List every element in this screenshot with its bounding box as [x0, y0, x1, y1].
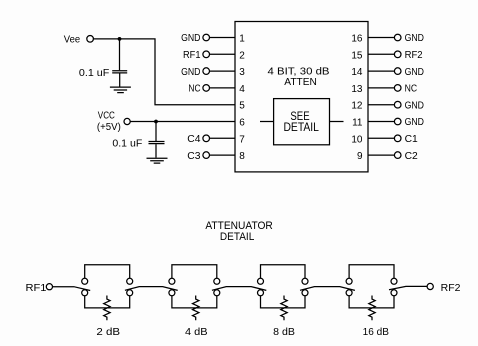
node pin10 C1 terminal — [394, 135, 401, 142]
svg-text:(+5V): (+5V) — [97, 122, 121, 133]
wire pin7 — [210, 137, 236, 139]
svg-text:GND: GND — [405, 100, 424, 111]
svg-text:Vee: Vee — [64, 35, 81, 46]
resistor 16 dB — [369, 296, 375, 321]
wire pin3 — [210, 70, 236, 72]
node cell1 upper-left contact — [82, 278, 88, 284]
svg-text:16 dB: 16 dB — [363, 327, 390, 338]
attenuator cell 4 bottom rail — [349, 296, 394, 308]
ground (bottom capacitor) — [147, 158, 168, 163]
svg-text:NC: NC — [405, 84, 418, 95]
wire pin12 — [368, 104, 394, 106]
node cell4 upper-left contact — [346, 278, 352, 284]
svg-text:9: 9 — [357, 151, 363, 162]
svg-text:C3: C3 — [187, 151, 201, 162]
capacitor 0.1 uF top — [112, 71, 127, 73]
see-detail inner box — [274, 99, 330, 145]
ground (top capacitor) — [110, 87, 131, 93]
wire see-detail right stub — [330, 121, 344, 123]
node pin11 GND terminal — [394, 118, 401, 125]
wire pin9 — [368, 154, 394, 156]
node cell1 upper-right contact — [127, 278, 133, 284]
svg-text:C4: C4 — [187, 134, 201, 145]
svg-text:5: 5 — [239, 101, 245, 112]
svg-text:GND: GND — [405, 33, 424, 44]
svg-text:4 dB: 4 dB — [185, 327, 208, 338]
node cell4 lower-right contact — [391, 290, 397, 296]
svg-text:15: 15 — [351, 50, 363, 61]
node cell3 lower-right contact — [302, 290, 308, 296]
svg-text:DETAIL: DETAIL — [220, 231, 254, 243]
svg-text:VCC: VCC — [98, 110, 115, 121]
node Vee terminal — [87, 36, 94, 43]
junction Vee/C-top — [118, 37, 122, 41]
wire junction to C-top — [119, 39, 121, 70]
attenuator cell 3 top rail — [261, 265, 306, 279]
svg-text:ATTEN: ATTEN — [284, 77, 317, 88]
node cell3 lower-left contact — [258, 290, 264, 296]
svg-text:GND: GND — [181, 33, 200, 44]
svg-text:1: 1 — [239, 34, 245, 45]
node RF2 terminal (detail) — [427, 283, 433, 289]
attenuator cell 3 bottom rail — [261, 296, 306, 308]
svg-text:GND: GND — [405, 117, 424, 128]
svg-text:2 dB: 2 dB — [96, 327, 120, 338]
svg-text:C2: C2 — [405, 151, 419, 162]
svg-text:11: 11 — [352, 118, 363, 129]
wire pin14 — [368, 70, 394, 72]
svg-text:C1: C1 — [405, 134, 419, 145]
svg-text:10: 10 — [351, 134, 363, 145]
resistor 2 dB — [104, 296, 110, 321]
wire switch arm cell2-cell3 — [212, 287, 266, 291]
wire junction to C-bot — [155, 122, 157, 142]
node pin13 NC terminal — [394, 85, 401, 92]
node cell3 upper-left contact — [258, 278, 264, 284]
wire pin11 — [368, 121, 394, 123]
svg-text:2: 2 — [239, 50, 245, 61]
node pin4 NC terminal — [203, 85, 210, 92]
node pin1 GND terminal — [203, 34, 210, 41]
node pin8 C3 terminal — [203, 152, 210, 159]
svg-text:3: 3 — [239, 67, 245, 78]
svg-text:DETAIL: DETAIL — [283, 120, 319, 134]
capacitor 0.1 uF bottom — [149, 142, 165, 144]
wire see-detail left stub — [260, 121, 274, 123]
node cell2 lower-left contact — [169, 290, 175, 296]
wire pin8 — [210, 154, 236, 156]
attenuator cell 1 top rail — [85, 265, 130, 279]
wire switch arm cell1-cell2 — [125, 287, 178, 291]
attenuator cell 2 top rail — [172, 265, 217, 279]
node cell4 lower-left contact — [346, 290, 352, 296]
node pin14 GND terminal — [394, 68, 401, 75]
node pin2 RF1 terminal — [203, 51, 210, 58]
node cell2 lower-right contact — [214, 290, 220, 296]
svg-text:6: 6 — [239, 118, 245, 129]
wire pin1 — [210, 37, 236, 39]
wire Vee to pin5 — [93, 39, 235, 105]
node cell2 upper-right contact — [214, 278, 220, 284]
node pin12 GND terminal — [394, 101, 401, 108]
node pin7 C4 terminal — [203, 135, 210, 142]
node RF1 terminal (detail) — [46, 284, 52, 290]
junction VCC/C-bot — [154, 120, 158, 124]
svg-text:16: 16 — [351, 34, 363, 45]
svg-text:GND: GND — [405, 67, 424, 78]
resistor 4 dB — [193, 296, 199, 321]
svg-text:8 dB: 8 dB — [273, 327, 295, 338]
node cell1 lower-right contact — [127, 290, 133, 296]
svg-text:12: 12 — [351, 101, 363, 112]
resistor 8 dB — [281, 296, 287, 321]
svg-text:4: 4 — [239, 84, 245, 95]
svg-text:NC: NC — [188, 84, 200, 95]
wire RF2 switch arm — [389, 286, 427, 289]
wire switch arm cell3-cell4 — [300, 287, 355, 291]
attenuator cell 2 bottom rail — [172, 296, 217, 308]
node VCC terminal — [124, 118, 130, 124]
node cell1 lower-left contact — [82, 290, 88, 296]
svg-text:0.1 uF: 0.1 uF — [79, 68, 109, 79]
node cell2 upper-left contact — [169, 278, 175, 284]
attenuator cell 4 top rail — [349, 265, 394, 279]
op-amp U1 attenuator IC body — [235, 22, 368, 172]
attenuator cell 1 bottom rail — [85, 296, 130, 308]
svg-text:4 BIT, 30 dB: 4 BIT, 30 dB — [268, 67, 330, 78]
svg-text:RF2: RF2 — [405, 50, 423, 61]
svg-text:14: 14 — [351, 67, 363, 78]
wire C-top to ground — [119, 73, 121, 86]
node pin3 GND terminal — [203, 68, 210, 75]
wire C-bot to ground — [155, 144, 157, 157]
wire pin13 — [368, 87, 394, 89]
svg-text:13: 13 — [351, 84, 363, 95]
svg-text:RF1: RF1 — [26, 283, 47, 294]
svg-text:8: 8 — [239, 151, 245, 162]
wire pin15 — [368, 53, 394, 55]
wire pin4 — [210, 87, 236, 89]
wire pin16 — [368, 37, 394, 39]
node pin15 RF2 terminal — [394, 51, 401, 58]
node cell3 upper-right contact — [302, 278, 308, 284]
node pin16 GND terminal — [394, 34, 401, 41]
node pin9 C2 terminal — [394, 152, 401, 159]
svg-text:7: 7 — [239, 134, 245, 145]
svg-text:GND: GND — [181, 67, 200, 78]
svg-text:0.1 uF: 0.1 uF — [112, 139, 142, 150]
wire VCC to pin6 — [130, 121, 235, 123]
svg-text:RF2: RF2 — [441, 283, 461, 294]
wire RF1 switch arm — [53, 287, 91, 291]
node cell4 upper-right contact — [391, 278, 397, 284]
svg-text:RF1: RF1 — [183, 50, 201, 61]
wire pin2 — [210, 53, 236, 55]
wire pin10 — [368, 137, 394, 139]
